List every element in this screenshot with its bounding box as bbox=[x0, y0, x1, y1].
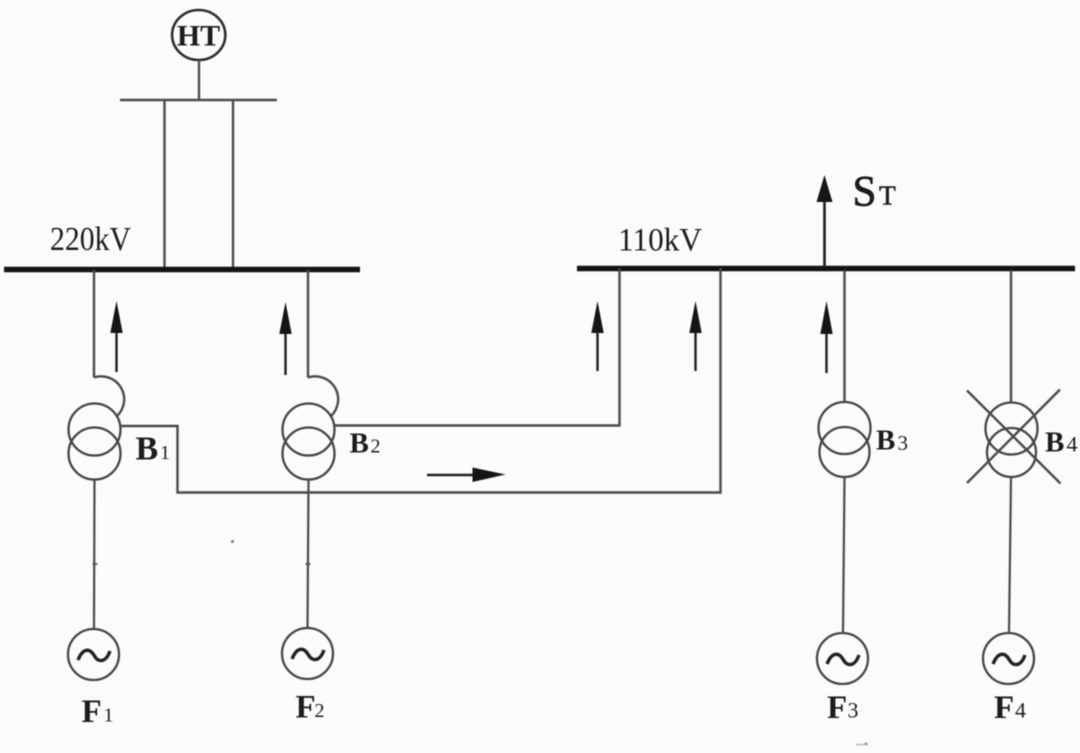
tap bar bbox=[120, 99, 277, 101]
generator F1 bbox=[68, 629, 119, 680]
wire 220kV bus to transformer B2 bbox=[307, 270, 309, 378]
svg-text:2: 2 bbox=[371, 436, 381, 458]
generator F3 bbox=[817, 633, 868, 684]
svg-text:3: 3 bbox=[848, 698, 859, 723]
transformer B2 bbox=[283, 404, 335, 456]
power flow arrow right (tie line) bbox=[427, 468, 506, 483]
transformer B1 third winding curl bbox=[94, 376, 124, 416]
wire B4 to generator F4 bbox=[1009, 477, 1011, 633]
svg-text:F: F bbox=[827, 690, 847, 726]
svg-text:B: B bbox=[136, 431, 159, 468]
wire 110kV bus to transformer B4 bbox=[1010, 270, 1012, 402]
svg-text:F: F bbox=[82, 694, 102, 730]
svg-text:B: B bbox=[1045, 427, 1064, 459]
svg-text:B: B bbox=[876, 425, 895, 457]
scan speck ticks on F1/F2 leads bbox=[93, 563, 98, 565]
wire 110kV bus to transformer B3 bbox=[843, 270, 845, 403]
svg-text:220kV: 220kV bbox=[50, 221, 131, 258]
generator F2 bbox=[282, 628, 333, 679]
scan speck dots bbox=[231, 540, 234, 543]
transformer B1 bbox=[69, 404, 121, 456]
wire B1 to generator F1 bbox=[93, 480, 96, 630]
svg-text:B: B bbox=[350, 428, 369, 460]
svg-text:4: 4 bbox=[1015, 698, 1026, 723]
arrow up at B2 bbox=[279, 302, 291, 375]
wire HT to tap bar bbox=[198, 62, 200, 101]
svg-text:F: F bbox=[994, 690, 1014, 726]
svg-text:S: S bbox=[853, 169, 877, 216]
B4 out-of-service cross stroke 2 bbox=[967, 390, 1060, 484]
arrow up at B1 bbox=[110, 301, 122, 372]
svg-text:110kV: 110kV bbox=[618, 223, 702, 259]
svg-text:1: 1 bbox=[160, 442, 170, 464]
wire tap bar left to 220kV bus bbox=[163, 100, 165, 268]
svg-text:1: 1 bbox=[104, 705, 114, 727]
busbar 220kV bbox=[4, 267, 360, 273]
wire 220kV bus to transformer B1 bbox=[93, 270, 95, 378]
transformer B2 third winding curl bbox=[308, 376, 338, 416]
wire B3 to generator F3 bbox=[843, 477, 845, 633]
svg-text:F: F bbox=[296, 690, 316, 726]
wire tap bar right to 220kV bus bbox=[232, 100, 234, 268]
wire B1 medium winding to 110kV bus (tie line lower) bbox=[121, 268, 721, 493]
svg-text:3: 3 bbox=[898, 431, 909, 455]
transformer B4 bbox=[986, 403, 1038, 455]
arrow up at B3 bbox=[820, 301, 832, 373]
B4 out-of-service cross stroke 1 bbox=[967, 391, 1061, 484]
svg-text:4: 4 bbox=[1067, 432, 1078, 457]
busbar 110kV bbox=[577, 266, 1075, 272]
svg-text:2: 2 bbox=[315, 700, 325, 722]
arrow ST (load flow up from 110kV bus) bbox=[93, 175, 869, 746]
svg-text:HT: HT bbox=[177, 20, 220, 53]
transformer B3 bbox=[819, 402, 871, 454]
component HT (reserve transformer circle) bbox=[172, 10, 225, 60]
generator F4 bbox=[983, 633, 1034, 684]
svg-text:T: T bbox=[879, 180, 896, 211]
wire B2 to generator F2 bbox=[308, 480, 309, 629]
arrow up at 110kV bus left feeder bbox=[591, 301, 603, 371]
arrow up at 110kV bus second feeder bbox=[689, 301, 701, 371]
wire B2 medium winding to 110kV bus (tie line upper) bbox=[335, 268, 620, 426]
